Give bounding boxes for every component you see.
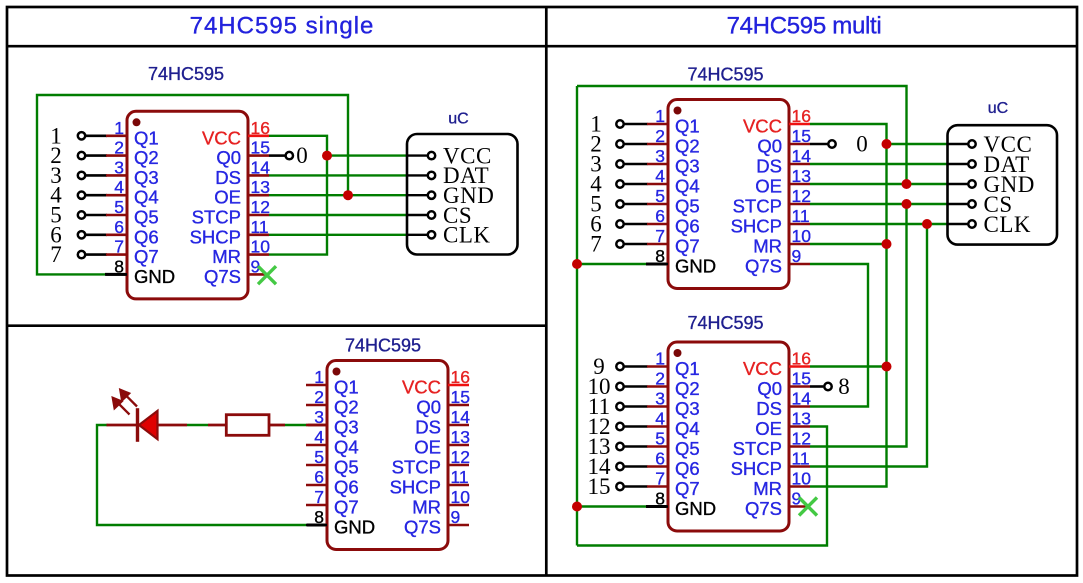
svg-text:15: 15 bbox=[792, 369, 811, 389]
junction GND net / OE bbox=[343, 190, 353, 200]
U3 pin 5 (Q5) stub bbox=[306, 464, 327, 467]
svg-text:7: 7 bbox=[114, 237, 124, 257]
svg-text:7: 7 bbox=[655, 226, 665, 246]
svg-text:Q5: Q5 bbox=[334, 457, 359, 478]
U1 pin 9 (Q7S) stub bbox=[248, 273, 269, 276]
U2a pin 7 (Q7) stub bbox=[647, 243, 668, 246]
U2b pin 12 (STCP) stub bbox=[789, 445, 810, 448]
wire: OE of U2a to uC GND bbox=[810, 183, 949, 185]
wire: open terminal 11 to U2b pin 3 bbox=[624, 405, 647, 408]
U3 pin 8 (GND) stub bbox=[306, 524, 327, 527]
uC2 pin wire CLK bbox=[948, 223, 968, 225]
wire: open terminal 14 to U2b pin 6 bbox=[624, 465, 647, 468]
svg-text:15: 15 bbox=[792, 126, 811, 146]
svg-text:DS: DS bbox=[756, 398, 782, 419]
junction VCC net / VCC U2b bbox=[882, 362, 892, 372]
svg-text:Q7: Q7 bbox=[675, 236, 700, 257]
wire: GND net to U2a pin 8 bbox=[577, 263, 647, 265]
svg-text:Q0: Q0 bbox=[216, 147, 241, 168]
svg-text:74HC595: 74HC595 bbox=[148, 64, 224, 84]
U1 pin 4 (Q4) stub bbox=[106, 194, 127, 197]
U1 pin 11 (SHCP) stub bbox=[248, 234, 269, 237]
uC2 pin terminal circle CS bbox=[968, 200, 975, 207]
uC1 pin wire GND bbox=[407, 194, 427, 196]
U2b pin 16 (VCC) stub bbox=[789, 365, 810, 368]
U3 pin-1 indicator dot bbox=[333, 368, 341, 376]
U3 pin 2 (Q2) stub bbox=[306, 404, 327, 407]
uC1 pin terminal circle CLK bbox=[428, 231, 435, 238]
terminal circle Q0 (U1) bbox=[286, 152, 293, 159]
U2b pin 14 (DS) stub bbox=[789, 405, 810, 408]
U2a pin 13 (OE) stub bbox=[789, 183, 810, 186]
U3 pin 16 (VCC) stub bbox=[448, 384, 469, 387]
U1 pin 7 (Q7) stub bbox=[106, 253, 127, 256]
svg-text:Q3: Q3 bbox=[675, 156, 700, 177]
wire: GND net top loop down to OE row bbox=[577, 86, 907, 184]
U1 pin 6 (Q6) stub bbox=[106, 234, 127, 237]
wire: DS to uC DAT bbox=[269, 174, 407, 176]
U2b pin 4 (Q4) stub bbox=[647, 425, 668, 428]
U1 pin 13 (OE) stub bbox=[248, 194, 269, 197]
terminal circle 6 (U2a) bbox=[616, 220, 623, 227]
wire: Q0 of U2a to terminal bbox=[810, 143, 828, 146]
wire: open terminal 1 to U1 pin 1 bbox=[86, 135, 107, 138]
svg-text:MR: MR bbox=[753, 236, 782, 257]
svg-text:8: 8 bbox=[314, 507, 324, 527]
svg-text:SHCP: SHCP bbox=[731, 458, 782, 479]
terminal circle Q0 (U2b) bbox=[824, 383, 831, 390]
uC1 pin wire CS bbox=[407, 214, 427, 216]
svg-text:3: 3 bbox=[655, 146, 665, 166]
terminal circle 1 (U2a) bbox=[616, 120, 623, 127]
wire: open terminal 4 to U1 pin 4 bbox=[86, 194, 107, 197]
svg-text:Q0: Q0 bbox=[757, 136, 782, 157]
svg-text:13: 13 bbox=[792, 166, 811, 186]
junction VCC net / MR U2a bbox=[882, 239, 892, 249]
junction VCC net / uC VCC bbox=[882, 139, 892, 149]
uC2 pin terminal circle CLK bbox=[968, 220, 975, 227]
svg-text:Q4: Q4 bbox=[675, 176, 700, 197]
U3 pin 4 (Q4) stub bbox=[306, 444, 327, 447]
LED D1 cathode bar bbox=[136, 408, 139, 442]
terminal circle 3 (U2a) bbox=[616, 160, 623, 167]
terminal circle 4 bbox=[78, 192, 85, 199]
svg-text:16: 16 bbox=[792, 106, 811, 126]
U2a pin 2 (Q2) stub bbox=[647, 143, 668, 146]
terminal circle 14 (U2b) bbox=[616, 463, 623, 470]
svg-text:SHCP: SHCP bbox=[731, 216, 782, 237]
svg-text:MR: MR bbox=[212, 246, 241, 267]
wire: CS net down to STCP of U2b bbox=[810, 204, 907, 447]
svg-text:2: 2 bbox=[655, 369, 665, 389]
svg-text:Q3: Q3 bbox=[675, 398, 700, 419]
wire: green segment resistor to U3 pin 3 bbox=[285, 424, 308, 426]
svg-text:13: 13 bbox=[451, 427, 470, 447]
svg-text:11: 11 bbox=[251, 217, 269, 237]
terminal circle 5 (U2a) bbox=[616, 200, 623, 207]
U2a pin 14 (DS) stub bbox=[789, 163, 810, 166]
svg-text:4: 4 bbox=[655, 409, 665, 429]
U2b pin 10 (MR) stub bbox=[789, 485, 810, 488]
U2b pin 5 (Q5) stub bbox=[647, 445, 668, 448]
svg-text:STCP: STCP bbox=[392, 457, 441, 478]
wire: open terminal 15 to U2b pin 7 bbox=[624, 485, 647, 488]
wire: open terminal 5 to U1 pin 5 bbox=[86, 214, 107, 217]
uC1 pin terminal circle DAT bbox=[428, 172, 435, 179]
svg-text:STCP: STCP bbox=[733, 438, 782, 459]
svg-text:Q0: Q0 bbox=[757, 378, 782, 399]
svg-text:Q6: Q6 bbox=[675, 458, 700, 479]
U2a pin 3 (Q3) stub bbox=[647, 163, 668, 166]
uC2 pin wire VCC bbox=[948, 143, 968, 145]
wire: open terminal 6 to U1 pin 6 bbox=[86, 234, 107, 237]
svg-text:74HC595 single: 74HC595 single bbox=[190, 13, 375, 40]
uC1 pin wire VCC bbox=[407, 154, 427, 156]
wire: open terminal 3 to U2a pin 3 bbox=[624, 163, 647, 166]
svg-text:SHCP: SHCP bbox=[190, 226, 241, 247]
wire: resistor lead left bbox=[208, 424, 226, 427]
svg-text:8: 8 bbox=[655, 489, 665, 509]
LED D1 emission arrow 1 bbox=[113, 398, 130, 415]
U2b pin 3 (Q3) stub bbox=[647, 405, 668, 408]
IC U2a 74HC595 body bbox=[668, 100, 789, 289]
U1 pin 8 (GND) stub bbox=[106, 273, 127, 276]
terminal circle Q0 (U2a) bbox=[828, 140, 835, 147]
svg-text:4: 4 bbox=[114, 177, 124, 197]
svg-text:Q2: Q2 bbox=[134, 147, 159, 168]
svg-text:uC: uC bbox=[448, 111, 468, 128]
svg-text:OE: OE bbox=[755, 418, 782, 439]
svg-text:MR: MR bbox=[412, 497, 441, 518]
resistor R1 bbox=[226, 415, 269, 436]
svg-text:2: 2 bbox=[114, 138, 124, 158]
wire: open terminal 7 to U1 pin 7 bbox=[86, 253, 107, 256]
svg-text:Q7: Q7 bbox=[334, 497, 359, 518]
svg-text:Q5: Q5 bbox=[675, 438, 700, 459]
svg-text:GND: GND bbox=[334, 517, 375, 538]
U1 pin 12 (STCP) stub bbox=[248, 214, 269, 217]
svg-text:2: 2 bbox=[655, 126, 665, 146]
svg-text:Q4: Q4 bbox=[134, 187, 159, 208]
svg-text:3: 3 bbox=[114, 157, 124, 177]
wire: GND black segment to U2a pin 8 bbox=[646, 263, 668, 266]
svg-text:Q1: Q1 bbox=[675, 116, 700, 137]
U1 pin 5 (Q5) stub bbox=[106, 214, 127, 217]
svg-text:8: 8 bbox=[655, 246, 665, 266]
uC2 pin wire DAT bbox=[948, 163, 968, 165]
svg-text:14: 14 bbox=[792, 389, 812, 409]
uC1 pin wire DAT bbox=[407, 174, 427, 176]
wire: open terminal 2 to U2a pin 2 bbox=[624, 143, 647, 146]
svg-text:Q2: Q2 bbox=[675, 136, 700, 157]
no-connect X on U1 Q7S bbox=[258, 266, 276, 284]
junction CS net / STCP U2a bbox=[902, 199, 912, 209]
terminal circle 13 (U2b) bbox=[616, 443, 623, 450]
wire: STCP of U2a to uC CS bbox=[810, 203, 949, 205]
svg-text:Q6: Q6 bbox=[675, 216, 700, 237]
uC2 pin terminal circle GND bbox=[968, 180, 975, 187]
svg-text:Q4: Q4 bbox=[675, 418, 700, 439]
svg-text:Q2: Q2 bbox=[334, 397, 359, 418]
wire: GND black segment to U2b pin 8 bbox=[646, 505, 668, 508]
svg-text:Q7S: Q7S bbox=[745, 256, 782, 277]
svg-text:5: 5 bbox=[655, 186, 665, 206]
U2a pin-1 indicator dot bbox=[674, 107, 682, 115]
svg-text:Q6: Q6 bbox=[134, 226, 159, 247]
svg-text:6: 6 bbox=[114, 217, 124, 237]
svg-text:74HC595: 74HC595 bbox=[345, 336, 421, 356]
svg-text:Q7S: Q7S bbox=[745, 498, 782, 519]
wire: VCC net tap to uC VCC bbox=[887, 143, 949, 145]
U2b pin 8 (GND) stub bbox=[647, 505, 668, 508]
U3 pin 15 (Q0) stub bbox=[448, 404, 469, 407]
terminal circle 10 (U2b) bbox=[616, 383, 623, 390]
terminal circle 2 bbox=[78, 152, 85, 159]
wire: VCC16 of U1 right, down, to MR pin (VCC net) bbox=[269, 136, 327, 255]
svg-text:3: 3 bbox=[655, 389, 665, 409]
uC2 pin terminal circle VCC bbox=[968, 140, 975, 147]
svg-text:Q7S: Q7S bbox=[404, 517, 441, 538]
svg-text:VCC: VCC bbox=[743, 358, 782, 379]
svg-text:15: 15 bbox=[451, 387, 470, 407]
wire: open terminal 10 to U2b pin 2 bbox=[624, 385, 647, 388]
U2b pin 6 (Q6) stub bbox=[647, 465, 668, 468]
svg-text:GND: GND bbox=[134, 266, 175, 287]
wire: GND net loop left/top and down to OE row bbox=[37, 95, 348, 274]
U1 pin 15 (Q0) stub bbox=[248, 154, 269, 157]
LED D1 emission arrow 2 bbox=[120, 390, 137, 407]
U2a pin 15 (Q0) stub bbox=[789, 143, 810, 146]
U3 pin 1 (Q1) stub bbox=[306, 384, 327, 387]
svg-text:0: 0 bbox=[856, 132, 868, 157]
U2b pin 2 (Q2) stub bbox=[647, 385, 668, 388]
svg-text:12: 12 bbox=[792, 186, 811, 206]
svg-text:12: 12 bbox=[792, 429, 811, 449]
svg-text:10: 10 bbox=[792, 226, 812, 246]
svg-text:DS: DS bbox=[756, 156, 782, 177]
U2b pin-1 indicator dot bbox=[674, 349, 682, 357]
svg-text:7: 7 bbox=[50, 242, 62, 267]
U2a pin 1 (Q1) stub bbox=[647, 123, 668, 126]
svg-text:Q0: Q0 bbox=[416, 397, 441, 418]
svg-text:CLK: CLK bbox=[984, 212, 1032, 237]
svg-text:Q7S: Q7S bbox=[204, 266, 241, 287]
svg-text:Q7: Q7 bbox=[134, 246, 159, 267]
IC U3 74HC595 body bbox=[327, 361, 448, 550]
svg-text:GND: GND bbox=[675, 498, 716, 519]
svg-text:OE: OE bbox=[755, 176, 782, 197]
wire: LED-resistor green segment bbox=[187, 424, 208, 426]
junction CLK net / SHCP U2a bbox=[922, 219, 932, 229]
terminal circle 9 (U2b) bbox=[616, 363, 623, 370]
wire: OE to uC GND bbox=[269, 194, 407, 196]
svg-text:STCP: STCP bbox=[733, 196, 782, 217]
svg-text:8: 8 bbox=[838, 374, 850, 399]
svg-text:Q5: Q5 bbox=[675, 196, 700, 217]
U2b pin 13 (OE) stub bbox=[789, 425, 810, 428]
U3 pin 6 (Q6) stub bbox=[306, 484, 327, 487]
wire: SHCP of U2a to uC CLK bbox=[810, 223, 949, 225]
terminal circle 4 (U2a) bbox=[616, 180, 623, 187]
svg-text:74HC595 multi: 74HC595 multi bbox=[727, 13, 882, 40]
svg-text:SHCP: SHCP bbox=[390, 477, 441, 498]
junction GND net / U2a GND bbox=[572, 259, 582, 269]
wire: VCC net to uC VCC bbox=[327, 154, 407, 156]
svg-text:9: 9 bbox=[792, 246, 802, 266]
wire: open terminal 7 to U2a pin 7 bbox=[624, 243, 647, 246]
svg-text:74HC595: 74HC595 bbox=[687, 313, 763, 333]
wire: VCC of U2b to VCC net bbox=[810, 365, 887, 367]
terminal circle 5 bbox=[78, 211, 85, 218]
uC1 pin terminal circle GND bbox=[428, 192, 435, 199]
wire: LED to resistor segment (maroon) bbox=[158, 424, 188, 427]
svg-text:6: 6 bbox=[655, 449, 665, 469]
svg-text:15: 15 bbox=[588, 474, 611, 499]
svg-text:OE: OE bbox=[414, 437, 441, 458]
svg-text:6: 6 bbox=[314, 467, 324, 487]
wire: open terminal 1 to U2a pin 1 bbox=[624, 123, 647, 126]
U3 pin 3 (Q3) stub bbox=[306, 424, 327, 427]
U2a pin 12 (STCP) stub bbox=[789, 203, 810, 206]
U2a pin 10 (MR) stub bbox=[789, 243, 810, 246]
svg-text:Q3: Q3 bbox=[334, 417, 359, 438]
svg-text:74HC595: 74HC595 bbox=[687, 65, 763, 85]
wire: open terminal 2 to U1 pin 2 bbox=[86, 154, 107, 157]
terminal circle 7 (U2a) bbox=[616, 240, 623, 247]
svg-text:DS: DS bbox=[215, 167, 241, 188]
junction GND net / U2b GND bbox=[572, 502, 582, 512]
svg-text:16: 16 bbox=[451, 367, 470, 387]
svg-text:1: 1 bbox=[655, 349, 665, 369]
wire: open terminal 13 to U2b pin 5 bbox=[624, 445, 647, 448]
uC1 pin wire CLK bbox=[407, 234, 427, 236]
wire: VCC net U2a pin16 right, down to U2b MR (and VCC2) bbox=[810, 124, 887, 487]
svg-text:1: 1 bbox=[314, 367, 324, 387]
wire: STCP to uC CS bbox=[269, 214, 407, 216]
svg-text:8: 8 bbox=[114, 256, 124, 276]
svg-text:12: 12 bbox=[251, 197, 270, 217]
U3 pin 12 (STCP) stub bbox=[448, 464, 469, 467]
microcontroller uC1 box bbox=[407, 134, 518, 255]
U2b pin 1 (Q1) stub bbox=[647, 365, 668, 368]
wire: open terminal 12 to U2b pin 4 bbox=[624, 425, 647, 428]
wire: SHCP to uC CLK bbox=[269, 234, 407, 236]
wire: Q7S of U2a down to DS of U2b bbox=[810, 264, 868, 407]
LED D1 triangle bbox=[139, 411, 158, 439]
microcontroller uC2 box bbox=[948, 125, 1058, 244]
U3 pin 7 (Q7) stub bbox=[306, 504, 327, 507]
uC1 pin terminal circle CS bbox=[428, 211, 435, 218]
svg-text:GND: GND bbox=[675, 256, 716, 277]
svg-text:9: 9 bbox=[451, 507, 461, 527]
svg-text:15: 15 bbox=[251, 138, 270, 158]
U2a pin 4 (Q4) stub bbox=[647, 183, 668, 186]
wire: LED circuit green loop (Q3 to GND) bbox=[97, 425, 308, 525]
uC1 pin terminal circle VCC bbox=[428, 152, 435, 159]
svg-text:11: 11 bbox=[792, 206, 810, 226]
wire: open terminal 6 to U2a pin 6 bbox=[624, 223, 647, 226]
U2a pin 16 (VCC) stub bbox=[789, 123, 810, 126]
svg-text:Q1: Q1 bbox=[334, 377, 359, 398]
svg-text:14: 14 bbox=[451, 407, 471, 427]
terminal circle 6 bbox=[78, 231, 85, 238]
wire: maroon segment into U3 pin 3 bbox=[308, 424, 327, 427]
svg-text:OE: OE bbox=[214, 187, 241, 208]
svg-text:1: 1 bbox=[114, 118, 124, 138]
svg-text:VCC: VCC bbox=[402, 377, 441, 398]
wire: resistor lead right bbox=[269, 424, 285, 427]
svg-text:10: 10 bbox=[792, 469, 812, 489]
svg-text:14: 14 bbox=[792, 146, 812, 166]
wire: GND black segment to U1 pin 8 bbox=[105, 273, 127, 276]
U3 pin 10 (MR) stub bbox=[448, 504, 469, 507]
U1 pin 10 (MR) stub bbox=[248, 253, 269, 256]
svg-text:12: 12 bbox=[451, 447, 470, 467]
svg-text:6: 6 bbox=[655, 206, 665, 226]
svg-text:11: 11 bbox=[451, 467, 469, 487]
U1 pin 2 (Q2) stub bbox=[106, 154, 127, 157]
junction VCC net / uC VCC bbox=[322, 151, 332, 161]
uC2 pin wire GND bbox=[948, 183, 968, 185]
wire: CLK net down to SHCP of U2b bbox=[810, 224, 927, 467]
U2a pin 9 (Q7S) stub bbox=[789, 263, 810, 266]
wire: open terminal 4 to U2a pin 4 bbox=[624, 183, 647, 186]
terminal circle 15 (U2b) bbox=[616, 483, 623, 490]
svg-text:4: 4 bbox=[655, 166, 665, 186]
svg-text:Q1: Q1 bbox=[134, 127, 159, 148]
svg-text:16: 16 bbox=[792, 349, 811, 369]
U1 pin 1 (Q1) stub bbox=[106, 135, 127, 138]
svg-text:16: 16 bbox=[251, 118, 270, 138]
IC U1 74HC595 body bbox=[127, 111, 248, 299]
svg-text:STCP: STCP bbox=[192, 207, 241, 228]
svg-text:DS: DS bbox=[415, 417, 441, 438]
svg-text:CLK: CLK bbox=[443, 223, 491, 248]
svg-text:7: 7 bbox=[655, 469, 665, 489]
svg-text:7: 7 bbox=[314, 487, 324, 507]
U2b pin 7 (Q7) stub bbox=[647, 485, 668, 488]
U3 pin 9 (Q7S) stub bbox=[448, 524, 469, 527]
wire: DS of U2a to uC DAT bbox=[810, 163, 949, 165]
wire: open terminal 3 to U1 pin 3 bbox=[86, 174, 107, 177]
junction GND net / OE U2a bbox=[902, 179, 912, 189]
svg-text:5: 5 bbox=[314, 447, 324, 467]
svg-text:Q3: Q3 bbox=[134, 167, 159, 188]
svg-text:2: 2 bbox=[314, 387, 324, 407]
svg-text:13: 13 bbox=[792, 409, 811, 429]
svg-text:5: 5 bbox=[655, 429, 665, 449]
svg-text:Q2: Q2 bbox=[675, 378, 700, 399]
terminal circle 1 bbox=[78, 132, 85, 139]
svg-text:Q4: Q4 bbox=[334, 437, 359, 458]
svg-text:Q7: Q7 bbox=[675, 478, 700, 499]
U1 pin-1 indicator dot bbox=[133, 118, 141, 126]
svg-text:10: 10 bbox=[451, 487, 471, 507]
uC2 pin wire CS bbox=[948, 203, 968, 205]
svg-text:13: 13 bbox=[251, 177, 270, 197]
svg-text:uC: uC bbox=[988, 100, 1008, 117]
no-connect X on U2b Q7S bbox=[799, 498, 817, 516]
U2a pin 6 (Q6) stub bbox=[647, 223, 668, 226]
svg-text:VCC: VCC bbox=[743, 116, 782, 137]
U1 pin 14 (DS) stub bbox=[248, 174, 269, 177]
wire: open terminal 5 to U2a pin 5 bbox=[624, 203, 647, 206]
wire: Q0 of U2b to terminal bbox=[810, 385, 823, 388]
terminal circle 11 (U2b) bbox=[616, 403, 623, 410]
wire: Q0 to terminal (U1) bbox=[269, 154, 285, 157]
U2b pin 9 (Q7S) stub bbox=[789, 505, 810, 508]
svg-text:Q1: Q1 bbox=[675, 358, 700, 379]
